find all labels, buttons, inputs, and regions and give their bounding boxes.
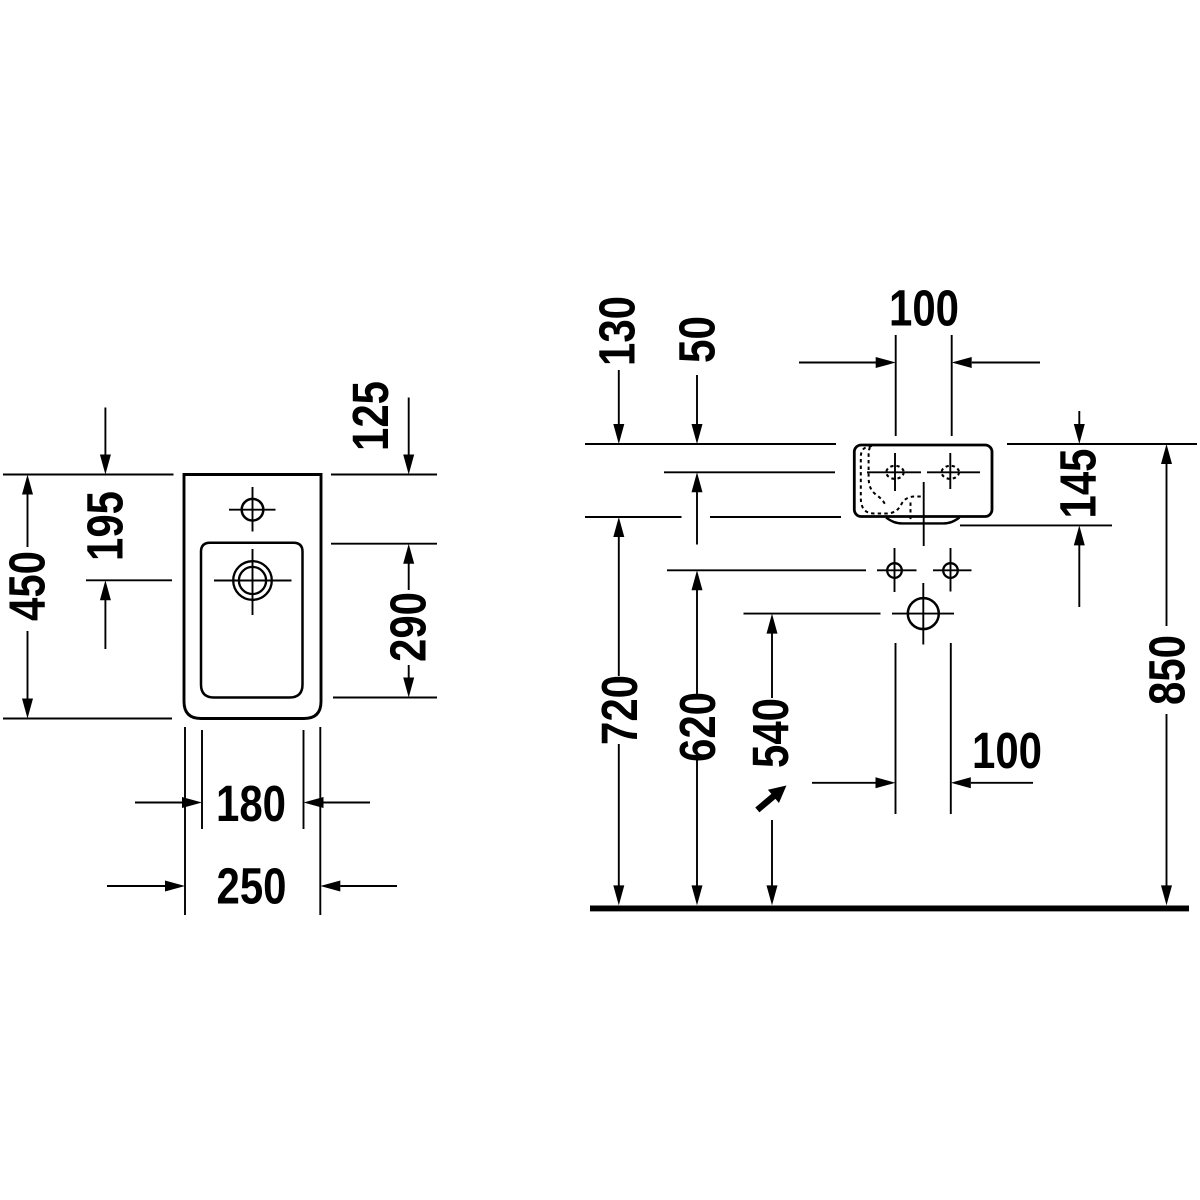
lower hole left crosshair vertical <box>894 548 896 592</box>
svg-text:290: 290 <box>380 592 437 662</box>
145 lower reference line <box>960 524 1112 526</box>
dim 130 tail <box>618 370 620 425</box>
dim 250 right-pointing arrowhead <box>165 881 185 892</box>
basin bottom level line seg b <box>710 516 841 518</box>
dim 850 upper tail <box>1166 464 1168 627</box>
dim 195 lower tail <box>104 600 106 649</box>
dim 180 right-pointing arrowhead <box>182 797 202 808</box>
basin outline (plan) <box>184 475 321 719</box>
lower holes crosshair horizontal left <box>877 569 917 571</box>
lower 100 extension line right <box>950 643 952 814</box>
dim 125 down arrowhead <box>403 455 414 475</box>
dim 250 left tail <box>107 885 165 887</box>
dim 850 lower tail <box>1166 714 1168 886</box>
lower holes level line (620 ref) <box>667 569 866 571</box>
dashed drain drop line <box>910 503 912 522</box>
svg-text:450: 450 <box>0 551 56 621</box>
drain centerline through basin <box>923 482 925 546</box>
upper fixing hole left (dashed) <box>886 466 903 479</box>
big hole crosshair horizontal <box>892 613 954 615</box>
dim 450 lower tail <box>27 631 29 699</box>
dim 720 upper tail <box>618 537 620 677</box>
drain outer circle <box>233 561 272 600</box>
dim 145 upper tail <box>1078 411 1080 425</box>
right reference line at bowl bottom <box>333 697 437 699</box>
upper holes crosshair horizontal left <box>867 471 921 473</box>
upper holes level line (50 ref) <box>664 471 835 473</box>
dim 195 upper tail (above top line) <box>104 408 106 456</box>
dim 620 upper tail <box>696 590 698 694</box>
dim 540 upper tail <box>771 633 773 698</box>
dim 620 down arrowhead <box>692 885 703 905</box>
dim 250 right tail <box>340 885 397 887</box>
180 extension line right <box>303 730 305 829</box>
dim 290 lower tail <box>408 665 410 679</box>
svg-text:145: 145 <box>1050 449 1107 519</box>
dim 850 down arrowhead <box>1161 885 1172 905</box>
lower 100 right-pointing arrowhead <box>876 777 896 788</box>
upper hole right crosshair vertical <box>949 453 951 489</box>
bottom reference line <box>3 718 172 720</box>
right reference line at rim <box>331 474 437 476</box>
dim 290 up arrowhead <box>403 544 414 564</box>
dim 450 down arrowhead <box>22 699 33 719</box>
svg-text:180: 180 <box>216 775 286 832</box>
250 extension line left <box>184 727 186 915</box>
dim 540 up arrowhead <box>767 614 778 634</box>
dim 540 down arrowhead <box>767 885 778 905</box>
svg-text:620: 620 <box>669 692 726 762</box>
section wall inner dashed profile <box>869 447 886 506</box>
svg-text:100: 100 <box>972 722 1042 779</box>
lower 100 extension line left <box>895 643 897 814</box>
top reference line <box>3 474 174 476</box>
floor line <box>590 905 1189 911</box>
drain crosshair vertical <box>252 549 254 615</box>
svg-text:195: 195 <box>77 491 134 561</box>
dim 180 left-pointing arrowhead <box>304 797 324 808</box>
dim 720 down arrowhead <box>613 885 624 905</box>
drain pipe hole crosshair vertical <box>922 583 924 645</box>
svg-text:130: 130 <box>589 296 646 366</box>
upper holes crosshair horizontal right <box>927 471 980 473</box>
dim 50 down arrowhead <box>692 424 703 444</box>
lower 100 dim right tail <box>971 782 1033 784</box>
dim 450 up arrowhead <box>22 475 33 495</box>
drain level line (540 ref) <box>744 613 881 615</box>
dim 180 right tail <box>324 802 371 804</box>
dim 195 up arrowhead <box>100 580 111 600</box>
svg-text:720: 720 <box>591 675 648 745</box>
upper hole left crosshair vertical <box>894 453 896 491</box>
faucet crosshair vertical <box>252 487 254 532</box>
faucet hole <box>242 499 264 521</box>
svg-text:540: 540 <box>742 698 799 768</box>
basin body (side elevation) <box>854 445 992 517</box>
250 extension line right <box>319 727 321 915</box>
dim 720 lower tail <box>618 744 620 886</box>
dim 250 left-pointing arrowhead <box>320 881 340 892</box>
dim 145 lower tail <box>1078 545 1080 607</box>
dim 450 upper tail <box>27 494 29 547</box>
top 100 right-pointing arrowhead <box>876 357 896 368</box>
extension vertical above right hole <box>951 335 953 436</box>
outlet direction arrow glyph <box>752 779 792 817</box>
dim 50 up arrowhead <box>692 472 703 492</box>
dim 195 down arrowhead <box>100 455 111 475</box>
dim 50 tail <box>696 375 698 425</box>
dim 540 lower tail <box>771 820 773 886</box>
dim 620 lower tail <box>696 760 698 886</box>
svg-text:850: 850 <box>1139 635 1196 705</box>
drain-center reference line (195) <box>86 579 172 581</box>
extension vertical above left hole <box>895 335 897 436</box>
top 100 dim left tail <box>799 362 876 364</box>
svg-text:250: 250 <box>217 858 287 915</box>
svg-text:50: 50 <box>669 316 726 363</box>
dim 620 up arrowhead <box>692 570 703 590</box>
lower fixing hole right <box>943 563 958 578</box>
svg-text:125: 125 <box>342 381 399 451</box>
drain pipe hole <box>908 598 939 629</box>
dim 290 down arrowhead <box>403 678 414 698</box>
lower hole right crosshair vertical <box>950 548 952 592</box>
lower holes crosshair horizontal right <box>933 569 972 571</box>
dim 720 up arrowhead <box>613 517 624 537</box>
dim 145 down arrowhead <box>1074 424 1085 444</box>
dim 130 down arrowhead <box>613 424 624 444</box>
right reference line at bowl top <box>331 543 437 545</box>
basin bottom level line seg a <box>585 516 682 518</box>
dim 125 tail <box>408 398 410 456</box>
inner bowl rect <box>201 543 303 698</box>
dim 290 upper tail <box>408 563 410 590</box>
section wall outer dashed profile <box>861 446 921 514</box>
top 100 dim right tail <box>972 362 1040 364</box>
top 100 left-pointing arrowhead <box>952 357 972 368</box>
dim 145 up arrowhead <box>1074 525 1085 545</box>
lower 100 dim left tail <box>812 782 876 784</box>
drain crosshair horizontal <box>214 580 292 582</box>
lower fixing hole left <box>887 563 902 578</box>
lower 100 left-pointing arrowhead <box>951 777 971 788</box>
dim 850 up arrowhead <box>1161 444 1172 464</box>
drain tray under basin <box>886 518 960 524</box>
180 extension line left <box>201 730 203 829</box>
dim 180 left tail <box>135 802 182 804</box>
rim level line left segment <box>585 443 836 445</box>
svg-text:100: 100 <box>889 280 959 337</box>
upper fixing hole right (dashed) <box>942 466 959 479</box>
drain inner circle <box>239 567 266 594</box>
dim 50 lower tail <box>696 492 698 545</box>
faucet crosshair horizontal <box>229 509 276 511</box>
rim level line right segment <box>1007 443 1197 445</box>
